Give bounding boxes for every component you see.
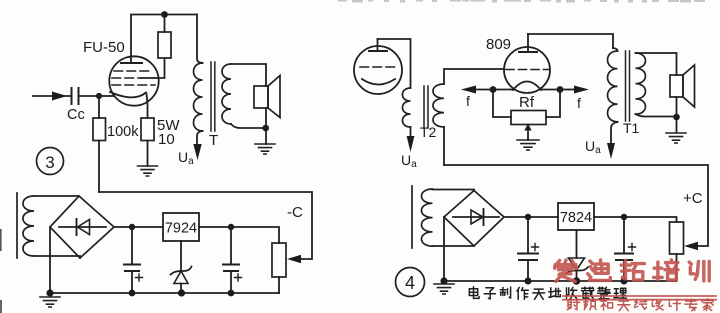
wire node to tube grid (99, 95, 113, 97)
wire T1 secondary bottom (636, 114, 677, 117)
svg-text:809: 809 (486, 36, 511, 53)
wire driver anode to T2 (378, 39, 411, 88)
wire winding bottom to bridge (34, 256, 80, 258)
arrow Ua T1 (607, 143, 615, 159)
svg-text:7924: 7924 (165, 221, 197, 237)
watermark logo red (555, 260, 710, 281)
wire filament left (493, 89, 513, 91)
transformer T2 primary winding (402, 88, 410, 127)
wire T1 secondary top to speaker (636, 53, 677, 75)
tube FU-50 screen lead (141, 59, 165, 79)
svg-text:4: 4 (405, 273, 415, 293)
node rail D2 (573, 277, 581, 285)
svg-text:Ua: Ua (585, 138, 601, 156)
node C3 top (525, 214, 531, 220)
node speaker return (262, 125, 269, 132)
node top rail junction (161, 11, 168, 18)
svg-text:7824: 7824 (560, 210, 592, 226)
node rail C2 (228, 290, 235, 297)
label circle 3 (37, 148, 64, 175)
tube driver cathode (362, 79, 395, 85)
wire 809 anode to T1 (528, 34, 613, 48)
potentiometer left (272, 243, 286, 277)
resistor cathode 5W 10 (141, 118, 154, 141)
transformer T2 core (424, 86, 428, 128)
node C2 top (228, 224, 234, 230)
label C3 plus (532, 244, 539, 251)
node filament left (490, 86, 497, 93)
wire ground rail left (50, 292, 279, 294)
potentiometer Rf (511, 111, 546, 125)
node speaker right return (673, 114, 680, 121)
wire screen resistor to rail (164, 14, 166, 32)
wire node down to R 100k (98, 96, 100, 118)
transformer T primary winding (194, 63, 203, 131)
wire input signal line (33, 95, 70, 97)
svg-text:Ua: Ua (178, 149, 194, 167)
wire 7824 output (594, 217, 677, 222)
tube 809 grid (506, 69, 549, 71)
potentiometer right (670, 222, 684, 254)
wire bridge B1 negative to ground rail (49, 227, 51, 293)
wire 100k to -C rail (98, 141, 100, 193)
wire top rail (131, 14, 197, 16)
wire T1 primary to Ua (611, 122, 618, 145)
wire bridge B1 output to 7924 (114, 226, 163, 228)
bridge rectifier B2 (444, 191, 504, 247)
node rail gnd (46, 289, 53, 296)
resistor screen (anode top) (158, 32, 171, 58)
wire 5W to ground (147, 141, 149, 167)
bridge B1 diode (59, 226, 106, 228)
svg-text:T1: T1 (623, 120, 640, 136)
wire T2 primary to Ua (410, 127, 412, 138)
svg-text:Ua: Ua (401, 152, 417, 170)
tube driver anode (369, 50, 387, 52)
node rail C4 (621, 278, 628, 285)
regulator 7924 (163, 213, 199, 241)
capacitor C3 right psu (527, 217, 529, 253)
wire cathode to R cathode (147, 94, 148, 118)
node C4 top (621, 214, 627, 220)
resistor 100k (93, 118, 106, 141)
ground speaker left (255, 144, 275, 154)
diode D2 (576, 230, 578, 258)
wire filament left to Rf (493, 90, 511, 118)
wire filament right (541, 89, 560, 91)
tube 809 envelope (504, 47, 550, 93)
tube 809 anode (519, 51, 537, 53)
svg-text:3: 3 (45, 153, 54, 172)
node rail C3 (525, 278, 532, 285)
ground cathode resistor (138, 166, 158, 176)
svg-text:f: f (577, 95, 581, 111)
wire T primary to Ua (197, 131, 203, 145)
wire bridge B2 output to 7824 (504, 216, 558, 218)
arrow +C into potentiometer (684, 242, 698, 250)
zener D1 (180, 241, 182, 270)
node grid junction (96, 93, 102, 99)
transformer T1 primary winding (613, 48, 618, 51)
transformer PSU-right winding (421, 189, 432, 246)
svg-text:10: 10 (158, 131, 175, 148)
wire T secondary bottom (231, 124, 265, 128)
svg-text:+C: +C (683, 190, 703, 207)
capacitor Cc (72, 88, 79, 104)
transformer T1 secondary winding (636, 53, 646, 114)
node rail right gnd (440, 277, 447, 284)
svg-text:Rf: Rf (519, 94, 535, 111)
ground PSU left (40, 297, 60, 307)
svg-text:T2: T2 (420, 124, 437, 140)
tube FU-50 envelope (109, 56, 158, 105)
transformer PSU-left core (16, 193, 18, 258)
node rail D1 (178, 289, 185, 296)
svg-text:T: T (209, 132, 218, 149)
wire +C feed line (444, 165, 708, 246)
scan edge mark left (0, 229, 2, 251)
tube driver envelope (354, 46, 402, 94)
bridge rectifier B1 (50, 196, 114, 258)
svg-text:FU-50: FU-50 (83, 39, 125, 56)
wire speaker to ground (265, 108, 267, 144)
arrow Ua supply left (193, 144, 201, 160)
svg-text:Cc: Cc (67, 107, 85, 123)
wire -C feed line (99, 192, 312, 259)
watermark text black (469, 287, 626, 300)
transformer PSU-left winding (23, 196, 34, 256)
svg-text:-C: -C (287, 204, 303, 221)
input arrowhead (52, 92, 67, 101)
transformer T1 core (626, 51, 630, 121)
svg-text:f: f (466, 93, 470, 109)
tube FU-50 anode (121, 62, 142, 64)
watermark subtitle red (567, 299, 713, 311)
transformer T core (211, 62, 215, 131)
speaker left (254, 86, 268, 108)
wire T2 secondary to 809 grid (444, 69, 504, 84)
transformer T2 secondary winding (433, 84, 444, 127)
ground speaker right (666, 133, 686, 143)
label C4 plus (629, 244, 636, 251)
svg-text:100k: 100k (107, 124, 139, 140)
capacitor C2 left psu (230, 227, 232, 264)
tube FU-50 grids (112, 71, 155, 85)
tube FU-50 cathode (110, 92, 146, 97)
wire bridge B2 to ground rail (443, 217, 445, 281)
node rail C1 (129, 290, 136, 297)
capacitor C4 right psu (623, 217, 625, 253)
speaker right (670, 75, 683, 97)
regulator 7824 (558, 203, 594, 230)
wire ground rail right (444, 280, 677, 282)
ground Rf wiper (517, 140, 539, 150)
tube driver grid (360, 66, 396, 68)
bridge B2 diode (453, 216, 499, 218)
arrow -C into potentiometer (287, 255, 301, 263)
tube 809 filament (513, 82, 541, 91)
transformer PSU-right core (411, 186, 413, 248)
wire winding top to bridge B2 (433, 190, 475, 191)
wire T2 secondary to +C line (443, 127, 445, 165)
arrow Ua T2 (407, 136, 415, 152)
wire winding bottom to bridge B2 (433, 245, 475, 247)
wire winding top to bridge (34, 195, 79, 197)
node C1 top (129, 224, 135, 230)
arrow f left (476, 89, 493, 91)
watermark underline red (563, 296, 716, 300)
cropped text top edge (338, 0, 705, 3)
transformer T secondary winding (222, 64, 231, 124)
node filament right (557, 86, 564, 93)
wire T secondary top to speaker (231, 64, 266, 86)
wire 7924 output (199, 227, 279, 243)
arrow f right (560, 89, 574, 91)
wire speaker right to ground (676, 97, 678, 132)
label C2 plus (235, 274, 242, 281)
capacitor C1 left psu (131, 227, 133, 264)
ground PSU right (434, 284, 454, 294)
Rf wiper arrow (524, 124, 531, 131)
label circle 4 (396, 268, 425, 297)
wire filament right to Rf (546, 90, 560, 118)
label C1 plus (136, 274, 143, 281)
wire rail to transformer T primary (197, 15, 203, 64)
